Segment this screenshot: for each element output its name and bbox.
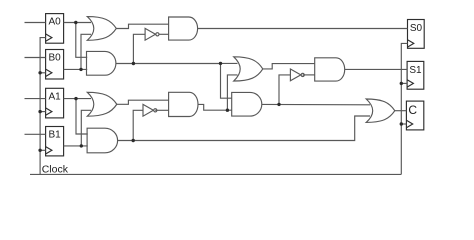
wire A1 riser to AND1 top — [76, 99, 88, 134]
node xor1 branch — [226, 109, 229, 112]
wire AND0b out to S0 input — [198, 28, 408, 30]
or-gate OR1 (A1+B1) — [87, 92, 117, 116]
flip-flop B1 — [46, 127, 64, 156]
wire A0 input stub — [25, 22, 46, 24]
wire OR1 out to AND1b top — [117, 100, 169, 104]
wire B0 riser to OR0 bottom — [81, 34, 91, 69]
wire B1 input stub — [25, 133, 46, 135]
wire B1 riser to OR1 bottom — [81, 110, 91, 146]
or-gate OR3 (carry out) — [366, 99, 395, 122]
wire clock tap B1 — [40, 149, 46, 151]
node B1 branch — [80, 144, 83, 147]
and-gate AND1 (A1·B1) — [87, 128, 118, 153]
or-gate OR2 (xor1 + c0) — [234, 57, 263, 81]
wire A0 out to OR0 top — [64, 22, 91, 24]
svg-text:B1: B1 — [48, 130, 61, 141]
svg-text:S1: S1 — [409, 65, 422, 76]
wire C0 drop to AND2 top — [221, 63, 232, 98]
svg-text:A0: A0 — [48, 17, 61, 28]
wire AND1b out to AND2 bottom — [198, 104, 232, 110]
flip-flop S0 — [408, 20, 425, 49]
wire clock tap S1 — [401, 82, 407, 84]
node A0 branch — [74, 21, 77, 24]
wire B0 input stub — [25, 57, 46, 59]
svg-text:Clock: Clock — [42, 164, 69, 176]
node clock tap B1 — [38, 149, 41, 152]
flip-flop C — [406, 101, 423, 130]
svg-text:C: C — [408, 103, 417, 117]
and-gate AND2 (xor1·c0) — [232, 92, 262, 116]
and-gate AND0b (XOR out bit0) — [169, 17, 198, 40]
wire B1 out to AND1 bottom — [64, 145, 88, 147]
flip-flop A0 — [46, 14, 64, 44]
wire A1 out to OR1 top — [64, 98, 91, 100]
wire AND1 out to OR3 bottom — [118, 116, 370, 141]
wire clock right rail — [401, 43, 407, 174]
node A1 branch — [74, 97, 77, 100]
node clock tap C — [400, 122, 403, 125]
not-gate NOT2 — [290, 69, 304, 81]
node AND0 out branch — [132, 62, 135, 65]
wire B0 out to AND0 bottom — [64, 68, 88, 70]
svg-text:A1: A1 — [48, 91, 61, 102]
wire NOT1 riser — [133, 110, 143, 140]
or-gate OR0 (A0+B0) — [87, 17, 116, 41]
wire clock tap B0 — [40, 72, 46, 74]
node clock tap S1 — [400, 82, 403, 85]
wire AND2b out to S1 input — [345, 68, 407, 70]
node clock tap B0 — [38, 71, 41, 74]
wire OR2 riser from xor1 — [227, 75, 237, 110]
wire OR0 out to AND0b top — [116, 24, 168, 28]
svg-text:S0: S0 — [410, 23, 423, 34]
node AND1 out branch — [132, 139, 135, 142]
wire clock left rail — [40, 38, 46, 175]
not-gate NOT0 — [145, 28, 159, 40]
and-gate AND0 (A0·B0) — [87, 51, 116, 75]
and-gate AND2b (XOR out S1) — [315, 58, 345, 81]
not-gate NOT1 — [143, 104, 157, 116]
wire NOT0 riser — [133, 34, 145, 63]
node B0 branch — [79, 68, 82, 71]
svg-text:B0: B0 — [48, 53, 61, 64]
node C0 branch — [219, 62, 222, 65]
flip-flop S1 — [407, 61, 424, 89]
flip-flop A1 — [46, 88, 64, 118]
flip-flop B0 — [46, 50, 64, 80]
wire A0 riser to AND0 top — [76, 23, 87, 58]
wire NOT0 out to AND0b bottom — [159, 33, 169, 35]
wire OR3 out to C input — [395, 110, 407, 112]
node clock tap A1 — [38, 110, 41, 113]
and-gate AND1b (XOR out bit1) — [169, 92, 198, 116]
wire AND2 out to OR3 top — [262, 103, 370, 105]
wire OR2 out to AND2b top — [263, 64, 315, 69]
wire NOT2 riser — [279, 75, 290, 105]
node AND2 out branch — [277, 103, 280, 106]
wire clock tap C — [401, 123, 406, 125]
wire AND0 out (C0) to OR2 top — [116, 62, 238, 64]
wire NOT2 out to AND2b bottom — [303, 74, 315, 76]
wire A1 input stub — [25, 98, 46, 100]
wire NOT1 out to AND1b bottom — [155, 109, 168, 111]
wire clock tap A1 — [40, 111, 46, 113]
wire clock bottom line — [30, 173, 401, 175]
